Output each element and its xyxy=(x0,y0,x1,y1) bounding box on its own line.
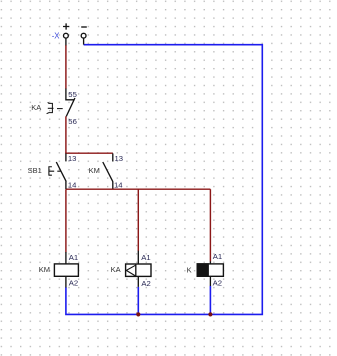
svg-text:13: 13 xyxy=(68,154,77,163)
svg-text:KM: KM xyxy=(89,166,100,175)
svg-text:14: 14 xyxy=(114,180,123,189)
svg-text:55: 55 xyxy=(68,90,77,99)
svg-text:13: 13 xyxy=(115,154,124,163)
svg-text:KA: KA xyxy=(31,103,41,112)
svg-text:14: 14 xyxy=(68,180,77,189)
svg-text:KM: KM xyxy=(39,265,50,274)
svg-text:A1: A1 xyxy=(213,252,222,261)
svg-text:A2: A2 xyxy=(141,279,150,288)
svg-text:A2: A2 xyxy=(69,279,78,288)
svg-text:A1: A1 xyxy=(141,253,150,262)
svg-text:KA: KA xyxy=(111,265,121,274)
svg-text:A2: A2 xyxy=(213,279,222,288)
svg-text:-X: -X xyxy=(52,31,61,40)
svg-text:SB1: SB1 xyxy=(28,166,42,175)
svg-text:K: K xyxy=(187,266,192,275)
svg-text:A1: A1 xyxy=(69,253,78,262)
svg-text:56: 56 xyxy=(68,117,77,126)
